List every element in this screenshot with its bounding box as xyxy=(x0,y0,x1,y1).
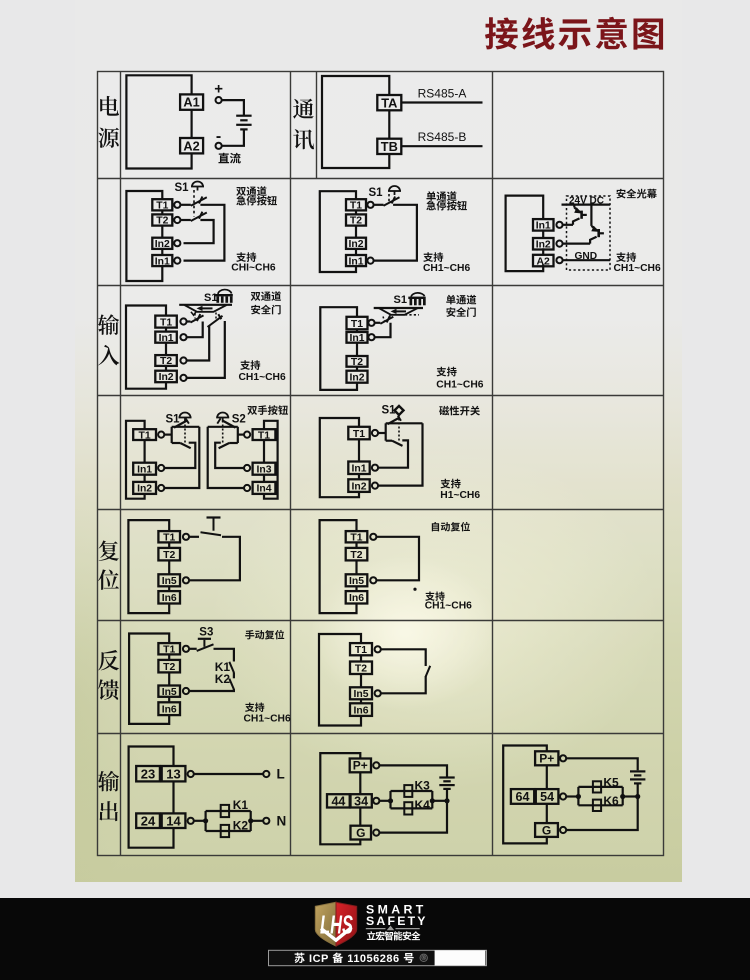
svg-text:K4: K4 xyxy=(415,798,431,812)
white placeholder box xyxy=(435,950,486,965)
svg-text:支持: 支持 xyxy=(423,249,444,264)
battery (out3) xyxy=(630,771,645,783)
svg-text:苏 ICP 备 11056286 号: 苏 ICP 备 11056286 号 xyxy=(294,950,415,966)
terminal box In1 (th-left) xyxy=(133,463,156,476)
wire T1 to pole (th-right) xyxy=(238,434,244,436)
svg-text:In2: In2 xyxy=(159,372,174,383)
wire T1-In1 (door2) xyxy=(356,329,358,332)
svg-text:In5: In5 xyxy=(353,689,368,700)
terminal circle In2 (th-left) xyxy=(158,485,164,491)
terminal circle In1 (door2) xyxy=(368,334,374,340)
svg-text:24: 24 xyxy=(141,813,156,828)
S2 button contact block (th-right) xyxy=(208,418,244,468)
pushbutton contact (reset1) xyxy=(201,518,222,536)
terminal box In2 (estop1) xyxy=(152,238,172,250)
wire NC to In4 (th-right) xyxy=(208,427,244,488)
battery B1 (DC source) xyxy=(236,116,251,130)
wire out1 loop xyxy=(129,747,174,848)
terminal circle T1 (reset2) xyxy=(370,534,376,540)
svg-text:T1: T1 xyxy=(353,429,365,440)
wire T1 to pole (magnet) xyxy=(378,432,386,434)
terminal circle T1 (estop1) xyxy=(174,202,180,208)
terminal box In2 (estop2) xyxy=(346,238,366,250)
terminal box In1 (estop2) xyxy=(346,255,366,267)
svg-text:SAFETY: SAFETY xyxy=(366,914,428,928)
svg-text:T1: T1 xyxy=(350,201,362,212)
terminal circle In1 (magnet) xyxy=(372,465,378,471)
branch bottom wire K6 xyxy=(578,804,622,806)
mushroom head S1 (estop2) xyxy=(388,186,401,195)
wire K2 to In5 (fb1) xyxy=(189,689,234,691)
branch right vertical (out3) xyxy=(622,787,624,805)
table grid xyxy=(98,72,664,856)
terminal circle 34 xyxy=(373,798,379,804)
svg-text:T1: T1 xyxy=(163,533,175,544)
terminal circle T1 (door1) xyxy=(180,318,186,324)
terminal circle In3 (th-right) xyxy=(244,465,250,471)
junction dot mid (out2) xyxy=(430,798,435,803)
terminal box A2 xyxy=(180,138,203,153)
wire battery to G (out2) xyxy=(379,789,447,833)
mushroom head S2 (th-right) xyxy=(216,413,229,422)
wire In5-In6 (reset2) xyxy=(355,586,357,591)
svg-text:CH1~CH6: CH1~CH6 xyxy=(423,263,470,274)
wire contact to In1 (estop2) xyxy=(374,205,417,261)
svg-text:13: 13 xyxy=(166,766,180,781)
svg-text:自动复位: 自动复位 xyxy=(430,519,470,534)
junction dot right (out1) xyxy=(248,818,253,823)
wire branch to battery line (out2) xyxy=(432,800,447,802)
svg-text:S1: S1 xyxy=(394,294,407,306)
svg-text:T1: T1 xyxy=(355,645,367,656)
relay coil K4 xyxy=(404,802,412,814)
wire reset2 loop xyxy=(320,520,357,613)
NC contact S1 channel 2 xyxy=(191,212,207,221)
terminal box In2 (door1) xyxy=(155,371,177,384)
terminal circle In2 (estop1) xyxy=(174,240,180,246)
wire In3-In4 (th-right) xyxy=(263,475,265,482)
svg-text:T2: T2 xyxy=(350,550,362,561)
pushbutton S3 xyxy=(197,639,214,651)
svg-text:-: - xyxy=(216,128,221,145)
svg-text:In6: In6 xyxy=(353,705,368,716)
svg-text:讯: 讯 xyxy=(292,124,314,155)
wire P+ to battery (out3) xyxy=(566,758,638,770)
svg-text:手动复位: 手动复位 xyxy=(245,627,285,642)
svg-text:K3: K3 xyxy=(415,779,431,793)
wire contact2 to In2 xyxy=(184,220,214,243)
svg-text:RS485-B: RS485-B xyxy=(418,130,467,144)
terminal box T1 (door1) xyxy=(155,316,177,329)
wire T2-In5 (fb1) xyxy=(168,672,170,685)
terminal box In2 (th-left) xyxy=(133,482,156,495)
svg-text:T2: T2 xyxy=(351,357,363,368)
wire T1 to contact (door1) xyxy=(187,320,191,322)
mushroom head S1 (estop1) xyxy=(191,182,204,191)
svg-text:In2: In2 xyxy=(137,484,152,495)
magnet diamond symbol S1 xyxy=(393,404,405,416)
wire TA to TB xyxy=(388,110,390,138)
terminal box In1 (curtain) xyxy=(533,219,554,232)
svg-text:馈: 馈 xyxy=(98,674,120,705)
NC contact door2 xyxy=(380,315,393,323)
terminal box TA xyxy=(377,95,401,110)
svg-text:L: L xyxy=(277,767,285,782)
wire RS485-B xyxy=(401,145,482,147)
svg-text:T1: T1 xyxy=(350,533,362,544)
terminal box 44 xyxy=(327,794,350,808)
wire T2 up to contact (door1) xyxy=(187,326,210,361)
svg-text:T1: T1 xyxy=(160,317,172,328)
terminal circle T1 (th-left) xyxy=(158,432,164,438)
svg-text:G: G xyxy=(356,826,365,840)
wire T2-In2 xyxy=(161,226,163,238)
terminal box G (out2) xyxy=(351,826,372,840)
terminal circle G (out3) xyxy=(560,827,566,833)
S1 button contact block (th-left) xyxy=(164,418,199,468)
svg-text:P+: P+ xyxy=(539,752,554,766)
terminal circle P+ (out3) xyxy=(560,755,566,761)
divider line with diamond xyxy=(366,928,420,930)
wire T1-In1 (door1) xyxy=(165,328,167,332)
svg-text:T2: T2 xyxy=(355,664,367,675)
wire T1-T2 (reset2) xyxy=(355,542,357,548)
terminal box In3 (th-right) xyxy=(253,463,276,476)
wire T1 to contact (estop2) xyxy=(374,204,384,206)
wire RS485-A xyxy=(401,101,482,103)
wire In1-In2 (magnet) xyxy=(358,474,360,479)
svg-text:位: 位 xyxy=(98,564,120,595)
terminal box In1 (door1) xyxy=(155,332,177,344)
wire K1 to K2 xyxy=(233,672,235,678)
svg-text:T2: T2 xyxy=(160,356,172,367)
svg-text:In5: In5 xyxy=(162,687,177,698)
dashed link S1 (magnet) xyxy=(398,415,400,442)
wire In5-In6 (reset1) xyxy=(168,586,170,591)
branch right vertical (out1) xyxy=(250,811,252,831)
junction dot left (out1) xyxy=(203,818,208,823)
NC contact S1 channel 1 xyxy=(191,197,207,206)
terminal circle T1 (door2) xyxy=(368,320,374,326)
terminal circle In5 (fb1) xyxy=(183,688,189,694)
relay coil K2 xyxy=(221,825,229,837)
door key actuator comb (door2) xyxy=(408,297,425,306)
svg-text:S1: S1 xyxy=(382,404,397,416)
wire T2 to contact xyxy=(180,219,190,221)
branch left vertical (out1) xyxy=(205,811,207,831)
svg-text:支持: 支持 xyxy=(440,475,461,490)
svg-text:S1: S1 xyxy=(369,187,384,199)
svg-text:34: 34 xyxy=(354,794,368,808)
svg-text:T2: T2 xyxy=(156,216,168,227)
terminal box T2 (estop2) xyxy=(346,214,366,226)
wire T2-In2 (estop2) xyxy=(355,226,357,238)
wire In2-In1 xyxy=(161,249,163,255)
svg-text:复: 复 xyxy=(98,535,120,566)
relay coil K5 xyxy=(593,781,601,792)
wire 13 to L xyxy=(194,773,263,775)
terminal box P+ (out3) xyxy=(535,751,558,765)
terminal box 14 xyxy=(162,813,186,828)
terminal box In1 (door2) xyxy=(347,332,368,344)
svg-text:P+: P+ xyxy=(353,759,368,773)
terminal circle L xyxy=(263,771,269,777)
terminal circle In5 (reset2) xyxy=(370,577,376,583)
wire estop1 loop xyxy=(126,191,162,281)
branch top wire K3 xyxy=(391,790,433,792)
wire P+-34 chain xyxy=(359,772,361,794)
svg-text:LHS: LHS xyxy=(320,910,353,940)
svg-text:安全光幕: 安全光幕 xyxy=(616,186,658,201)
wire T1-T2 (fb1) xyxy=(168,654,170,660)
svg-text:In2: In2 xyxy=(348,239,363,250)
svg-text:立宏智能安全: 立宏智能安全 xyxy=(367,929,421,943)
terminal box In5 (reset2) xyxy=(346,574,368,587)
branch bottom wire K2 xyxy=(206,830,251,832)
svg-text:S3: S3 xyxy=(199,627,213,639)
svg-text:In1: In1 xyxy=(155,256,170,267)
branch left vertical (out3) xyxy=(577,787,579,805)
wire T1-In3 (th-right) xyxy=(263,440,265,463)
wire In1-In2 (curtain) xyxy=(542,231,544,238)
svg-text:CHI~CH6: CHI~CH6 xyxy=(231,262,276,273)
svg-text:T1: T1 xyxy=(139,430,151,441)
terminal circle In2 (curtain) xyxy=(556,241,562,247)
terminal box G (out3) xyxy=(535,823,558,837)
relay coil K3 xyxy=(404,785,412,797)
wire T1-T2 (estop2) xyxy=(355,210,357,214)
wire In1-T2 (door2) xyxy=(356,343,358,356)
svg-text:源: 源 xyxy=(98,122,120,153)
wire In2 to Q2 emitter xyxy=(563,243,591,245)
wire P+ to battery (out2) xyxy=(379,765,447,776)
svg-text:In4: In4 xyxy=(256,484,271,495)
svg-text:A2: A2 xyxy=(183,138,199,153)
terminal box 34 xyxy=(351,794,372,808)
wire T2-In2 (door2) xyxy=(356,367,358,371)
terminal circle T2 (door1) xyxy=(180,357,186,363)
svg-text:In2: In2 xyxy=(349,372,364,383)
svg-text:支持: 支持 xyxy=(245,699,265,714)
svg-text:双手按钮: 双手按钮 xyxy=(247,402,289,417)
terminal box In4 (th-right) xyxy=(253,482,276,495)
svg-text:反: 反 xyxy=(98,645,120,676)
svg-text:In2: In2 xyxy=(155,239,170,250)
transistor Q2 (light curtain OSSD2) xyxy=(590,205,604,244)
terminal box T1 (fb1) xyxy=(158,643,180,655)
terminal circle G (out2) xyxy=(373,830,379,836)
wire In1 to Q1 emitter xyxy=(563,224,573,226)
svg-text:A2: A2 xyxy=(537,256,551,267)
NO contact K1 xyxy=(229,662,234,673)
svg-text:T2: T2 xyxy=(163,550,175,561)
svg-text:支持: 支持 xyxy=(616,249,637,264)
svg-text:CH1~CH6: CH1~CH6 xyxy=(244,714,291,725)
wire T1 to S3 xyxy=(189,648,197,650)
terminal circle In2 (magnet) xyxy=(372,483,378,489)
svg-text:直流: 直流 xyxy=(218,150,241,166)
wire magnet loop xyxy=(320,418,359,497)
svg-text:磁性开关: 磁性开关 xyxy=(439,403,481,418)
wire contact to In1 (door1) xyxy=(187,322,203,338)
branch right vertical (out2) xyxy=(431,791,433,808)
wire button to In5 (reset1) xyxy=(189,537,240,581)
terminal circle In1 (th-left) xyxy=(158,465,164,471)
wire branch to N xyxy=(251,820,264,822)
terminal circle A2 (curtain) xyxy=(556,257,562,263)
wire 14 to branch xyxy=(194,820,206,822)
battery (out2) xyxy=(439,778,454,789)
terminal box T1 (door2) xyxy=(347,317,368,330)
terminal circle N xyxy=(263,818,269,824)
svg-text:接线示意图: 接线示意图 xyxy=(484,6,668,56)
terminal box In5 (reset1) xyxy=(158,574,180,587)
wire 34-G chain xyxy=(359,808,361,826)
wire T1 to contact (fb2) xyxy=(381,649,426,666)
photo background xyxy=(75,0,682,882)
wire T1 to contact xyxy=(180,204,190,206)
svg-text:安全门: 安全门 xyxy=(446,304,477,319)
terminal box A1 xyxy=(180,94,203,109)
terminal box 13 xyxy=(162,766,186,781)
svg-text:CH1~CH6: CH1~CH6 xyxy=(436,380,483,391)
NC contact door channel 1 xyxy=(191,314,204,322)
wire door1 loop xyxy=(126,306,166,389)
wire In1-In2 (th-left) xyxy=(144,475,146,482)
svg-text:K6: K6 xyxy=(603,794,619,808)
terminal box T1 (th-right) xyxy=(253,429,276,441)
wire twohand left loop xyxy=(126,421,145,499)
terminal box P+ (out2) xyxy=(350,759,371,773)
wire 54 to branch xyxy=(566,795,578,797)
svg-text:CH1~CH6: CH1~CH6 xyxy=(425,601,472,612)
svg-text:In6: In6 xyxy=(349,593,364,604)
terminal box A2 (curtain) xyxy=(533,255,554,267)
terminal circle In5 (fb2) xyxy=(375,690,381,696)
wire fb2 loop xyxy=(319,634,361,726)
junction dot battery (out2) xyxy=(444,798,449,803)
wire T1-T2 (reset1) xyxy=(168,542,170,548)
NO contact K2 xyxy=(229,679,234,690)
svg-text:In1: In1 xyxy=(536,221,551,232)
wire fb1 loop xyxy=(129,634,169,724)
NC contact S1 (estop2) xyxy=(384,197,400,206)
terminal box T2 (reset2) xyxy=(346,548,368,561)
terminal box T2 (fb2) xyxy=(350,662,372,675)
svg-text:K2: K2 xyxy=(215,672,231,686)
wire S3 to K1 xyxy=(214,649,234,662)
terminal circle T1 (th-right) xyxy=(244,432,250,438)
transistor Q1 (light curtain OSSD1) xyxy=(573,205,587,225)
svg-text:出: 出 xyxy=(98,796,120,827)
svg-text:支持: 支持 xyxy=(436,364,457,379)
branch top wire K5 xyxy=(578,786,622,788)
wire In2-In1 (estop2) xyxy=(355,249,357,255)
door key actuator comb (door1) xyxy=(215,294,233,303)
svg-text:K2: K2 xyxy=(233,819,249,833)
dashed link door1 to contact2 xyxy=(215,313,217,320)
wire door2 loop xyxy=(320,307,357,390)
svg-text:H1~CH6: H1~CH6 xyxy=(440,490,480,501)
terminal box T2 (reset1) xyxy=(158,548,180,561)
junction dot left (out3) xyxy=(576,794,581,799)
small dot mark xyxy=(413,588,416,591)
wire In2-A2 (curtain) xyxy=(542,248,544,255)
terminal box In6 (fb1) xyxy=(158,702,180,715)
svg-text:S2: S2 xyxy=(232,413,246,425)
dashed sensor enclosure box xyxy=(567,196,611,270)
junction dot battery (out3) xyxy=(635,794,640,799)
terminal box T1 (estop1) xyxy=(152,199,172,211)
svg-text:CH1~CH6: CH1~CH6 xyxy=(614,263,661,274)
wire 13-14 chain xyxy=(172,781,174,813)
S1 magnetic contact block xyxy=(378,416,422,468)
wire P+-54 chain xyxy=(546,765,548,789)
wire T1-In1 (th-left) xyxy=(144,440,146,463)
black footer band xyxy=(0,898,750,980)
wire twohand right loop xyxy=(264,421,278,499)
wire estop2 loop xyxy=(320,191,356,272)
NC contact door channel 2 xyxy=(208,314,223,327)
wire T2-In5 (fb2) xyxy=(360,674,362,687)
branch top wire K1 xyxy=(206,810,251,812)
svg-text:In5: In5 xyxy=(349,576,364,587)
svg-text:输: 输 xyxy=(98,309,120,340)
wire In1-T2 (door1) xyxy=(165,343,167,355)
svg-text:In1: In1 xyxy=(351,464,366,475)
svg-text:通: 通 xyxy=(292,93,314,124)
terminal box T1 (magnet) xyxy=(348,427,369,440)
svg-text:®: ® xyxy=(421,955,426,962)
mushroom head S1 (th-left) xyxy=(179,413,192,422)
wire 24V rail xyxy=(562,204,611,206)
wire A2 GND xyxy=(563,259,610,261)
terminal circle 14 xyxy=(188,818,194,824)
svg-text:电: 电 xyxy=(98,90,120,121)
wire branch to battery line (out3) xyxy=(623,795,638,797)
svg-text:23: 23 xyxy=(141,766,155,781)
wire contact1 to In1 xyxy=(184,205,225,261)
svg-text:急停按钮: 急停按钮 xyxy=(426,197,468,212)
wire NC to In2 (magnet) xyxy=(378,423,422,485)
terminal box T1 (reset1) xyxy=(158,531,180,543)
svg-text:In6: In6 xyxy=(162,704,177,715)
terminal box In6 (reset1) xyxy=(158,591,180,604)
svg-text:入: 入 xyxy=(98,340,120,371)
terminal box In5 (fb1) xyxy=(158,686,180,698)
relay coil K1 xyxy=(221,805,229,817)
svg-text:14: 14 xyxy=(166,813,181,828)
svg-text:G: G xyxy=(542,823,551,837)
terminal circle In1 (curtain) xyxy=(556,222,562,228)
table interior lightening xyxy=(98,72,664,856)
svg-text:K5: K5 xyxy=(603,775,619,789)
svg-text:RS485-A: RS485-A xyxy=(418,87,467,101)
svg-text:A1: A1 xyxy=(183,95,199,110)
terminal box T2 (fb1) xyxy=(158,660,180,673)
wire battery to G (out3) xyxy=(566,783,638,830)
terminal circle In1 (estop1) xyxy=(174,258,180,264)
svg-text:T1: T1 xyxy=(351,319,363,330)
svg-text:In1: In1 xyxy=(349,333,364,344)
terminal circle In1 (estop2) xyxy=(367,258,373,264)
dashed link S1 (estop2) xyxy=(388,194,390,203)
svg-text:T2: T2 xyxy=(163,662,175,673)
svg-text:CH1~CH6: CH1~CH6 xyxy=(239,372,286,383)
terminal box TB xyxy=(377,139,401,154)
svg-text:TB: TB xyxy=(381,139,398,154)
svg-text:In2: In2 xyxy=(536,240,551,251)
